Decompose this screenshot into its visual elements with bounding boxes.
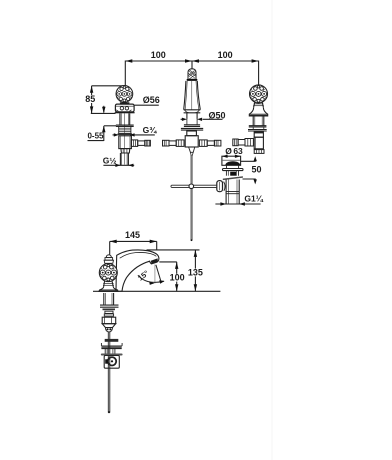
svg-text:Ø50: Ø50 [209,110,226,120]
svg-text:Ø63: Ø63 [225,146,243,156]
svg-text:G½: G½ [103,156,117,166]
svg-text:50: 50 [252,164,262,174]
svg-text:100: 100 [218,50,233,60]
svg-text:100: 100 [151,50,166,60]
svg-text:85: 85 [85,94,95,104]
svg-text:G¾: G¾ [143,125,158,135]
svg-text:135: 135 [188,267,203,277]
svg-text:Ø56: Ø56 [143,95,160,105]
svg-text:0-55: 0-55 [87,131,104,140]
svg-text:145: 145 [125,230,140,240]
svg-text:G1¼: G1¼ [244,194,263,204]
svg-text:100: 100 [170,273,185,283]
